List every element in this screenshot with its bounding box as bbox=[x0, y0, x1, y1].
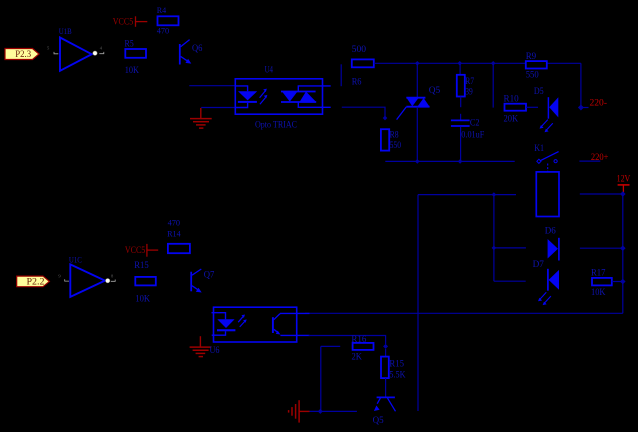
svg-text:220+: 220+ bbox=[591, 153, 609, 163]
relay switch K1 bbox=[534, 144, 558, 172]
svg-text:0.01uF: 0.01uF bbox=[461, 130, 484, 140]
wire long vertical bbox=[417, 195, 419, 411]
svg-text:Q7: Q7 bbox=[204, 269, 215, 279]
svg-text:12V: 12V bbox=[617, 174, 631, 184]
wire U4 pin4 to R8 bbox=[342, 107, 388, 120]
node junction bbox=[620, 245, 626, 251]
svg-text:220-: 220- bbox=[590, 99, 608, 109]
port flag P2.3 bbox=[5, 49, 39, 61]
resistor R14 bbox=[167, 217, 190, 253]
resistor R16 bbox=[351, 334, 373, 362]
wire down from R16 row to ground row bbox=[320, 346, 322, 411]
wire U4 pin2 row bbox=[201, 107, 235, 109]
wire U6 emitter row bbox=[309, 336, 386, 345]
svg-text:U4: U4 bbox=[265, 64, 274, 74]
wire top bus bbox=[374, 63, 581, 107]
svg-text:R10: R10 bbox=[504, 94, 520, 104]
wire from R6 left down to U4 pin row bbox=[340, 64, 342, 86]
port flag P2.2 bbox=[17, 276, 50, 288]
pin 5 marks at U1B input bbox=[47, 46, 58, 54]
node 220- junction bbox=[578, 105, 584, 111]
U4 LED emission arrows bbox=[260, 89, 268, 105]
resistor R9 bbox=[526, 51, 547, 79]
resistor R8 bbox=[381, 129, 402, 150]
op-amp U1B (inverter) bbox=[59, 26, 92, 71]
relay coil K1 bbox=[536, 172, 559, 217]
wire 12V row right bbox=[580, 193, 623, 195]
optocoupler U6 bbox=[210, 307, 297, 355]
svg-text:R6: R6 bbox=[352, 76, 362, 86]
svg-text:R9: R9 bbox=[526, 51, 537, 61]
node top bus junctions bbox=[415, 61, 496, 66]
resistor R15 (10K) bbox=[134, 260, 156, 304]
svg-text:R14: R14 bbox=[167, 228, 181, 238]
resistor R15 (5.5K) bbox=[381, 349, 406, 398]
wire bus drop to R10 bbox=[492, 63, 494, 107]
node ground junction bbox=[318, 409, 323, 414]
svg-text:D5: D5 bbox=[534, 86, 544, 96]
node junction bbox=[492, 246, 497, 251]
svg-text:VCC5: VCC5 bbox=[113, 17, 134, 27]
svg-text:VCC5: VCC5 bbox=[125, 246, 146, 256]
pin 4 marks at U1B output bbox=[99, 45, 103, 53]
U4 internal LED bbox=[235, 86, 257, 108]
svg-text:R15: R15 bbox=[389, 359, 404, 369]
svg-text:P2.2: P2.2 bbox=[27, 278, 45, 288]
resistor R17 bbox=[591, 268, 623, 297]
svg-text:20K: 20K bbox=[504, 114, 519, 124]
svg-text:R17: R17 bbox=[591, 268, 606, 278]
node junction R16/R15 bbox=[383, 344, 388, 349]
resistor R5 bbox=[125, 39, 147, 76]
ground (bottom, sideways) bbox=[289, 400, 310, 422]
svg-text:D7: D7 bbox=[533, 259, 545, 269]
svg-text:470: 470 bbox=[157, 26, 169, 36]
triac Q5 bbox=[397, 63, 441, 161]
diode D6 bbox=[545, 225, 559, 260]
svg-text:U6: U6 bbox=[210, 345, 220, 355]
svg-text:470: 470 bbox=[168, 217, 180, 227]
transistor Q6 bbox=[180, 40, 203, 65]
svg-text:U1B: U1B bbox=[59, 26, 72, 36]
svg-text:550: 550 bbox=[390, 140, 402, 150]
wire bottom rail row bbox=[305, 312, 623, 314]
svg-text:D6: D6 bbox=[545, 225, 556, 235]
node junction bbox=[492, 192, 497, 197]
power 12V bbox=[617, 174, 631, 193]
wire D6 row right bbox=[580, 247, 623, 249]
svg-text:Q6: Q6 bbox=[192, 43, 203, 53]
U6 LED emission arrows bbox=[238, 315, 247, 327]
ground (near U4) bbox=[190, 108, 212, 128]
LED D5 bbox=[534, 86, 558, 132]
resistor R6 bbox=[352, 44, 374, 86]
wire Q6 emitter row to U4 pin1 bbox=[189, 85, 235, 87]
node junction R17/rail bbox=[620, 279, 626, 285]
op-amp U1C (inverter) bbox=[69, 254, 105, 297]
node 12V junction bbox=[620, 191, 626, 197]
resistor R7 bbox=[457, 63, 475, 107]
svg-text:500: 500 bbox=[352, 44, 367, 54]
svg-text:P2.3: P2.3 bbox=[15, 50, 31, 60]
svg-text:5.5K: 5.5K bbox=[389, 369, 406, 379]
U6 internal phototransistor bbox=[273, 313, 310, 335]
LED D7 bbox=[533, 259, 559, 305]
U4 internal triac bbox=[281, 86, 331, 107]
resistor R10 bbox=[504, 94, 539, 124]
resistor R4 bbox=[157, 5, 179, 36]
wire to 220+ bbox=[579, 160, 600, 162]
wire ground row bbox=[310, 410, 357, 412]
power VCC5 (top) bbox=[113, 16, 148, 27]
wire to 220- bbox=[581, 107, 589, 109]
wire gate row bbox=[385, 159, 514, 164]
wire vertical to D6/D7 bbox=[493, 195, 495, 282]
wire right rail bbox=[622, 194, 624, 313]
power VCC5 (bottom) bbox=[125, 244, 158, 257]
svg-text:10K: 10K bbox=[591, 287, 606, 297]
wire to D6 anode bbox=[494, 247, 526, 249]
svg-text:R8: R8 bbox=[390, 130, 399, 140]
U1C output bubble bbox=[106, 279, 110, 283]
wire 12V row left bbox=[418, 194, 516, 196]
svg-text:2K: 2K bbox=[352, 352, 363, 362]
opto-triac U4 bbox=[235, 64, 322, 129]
U1B output bubble bbox=[93, 51, 97, 55]
svg-text:10K: 10K bbox=[125, 65, 140, 75]
svg-text:R15: R15 bbox=[134, 260, 149, 270]
svg-text:U1C: U1C bbox=[69, 254, 82, 264]
wire to D7 cathode bbox=[494, 280, 526, 282]
svg-text:10K: 10K bbox=[135, 294, 150, 304]
svg-text:K1: K1 bbox=[534, 144, 544, 154]
svg-text:R4: R4 bbox=[157, 5, 167, 15]
transistor Q5 (bottom) bbox=[373, 397, 396, 425]
svg-text:R7: R7 bbox=[465, 76, 474, 86]
pin 8 marks at U1C output bbox=[111, 274, 115, 282]
svg-text:C2: C2 bbox=[470, 118, 480, 128]
svg-text:Q5: Q5 bbox=[373, 415, 384, 425]
wire R16 left pin row bbox=[321, 345, 340, 347]
svg-text:39: 39 bbox=[465, 86, 473, 96]
transistor Q7 bbox=[191, 269, 215, 293]
svg-text:Q5: Q5 bbox=[429, 86, 441, 96]
svg-text:550: 550 bbox=[526, 69, 539, 79]
svg-text:Opto TRIAC: Opto TRIAC bbox=[255, 120, 297, 130]
svg-text:R5: R5 bbox=[125, 39, 135, 49]
pin 9 marks at U1C input bbox=[58, 274, 69, 282]
U6 internal LED bbox=[212, 313, 236, 336]
ground (near U6) bbox=[190, 336, 212, 356]
capacitor C2 bbox=[451, 114, 484, 162]
